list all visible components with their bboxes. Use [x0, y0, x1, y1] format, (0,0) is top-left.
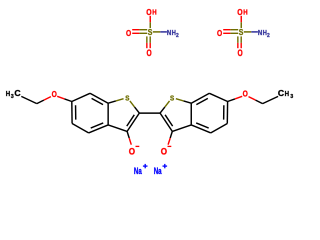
- bond C7a-S1: [108, 101, 116, 103]
- svg-text:C: C: [278, 89, 284, 98]
- bond C7a-C3a (ring fusion): [107, 103, 109, 125]
- svg-text:H: H: [243, 8, 247, 17]
- svg-text:H: H: [6, 89, 10, 98]
- bond CH2-CH3: [21, 96, 37, 103]
- bond C4-C5: [72, 124, 89, 133]
- svg-text:2: 2: [176, 33, 179, 39]
- plus charge on right Na: [163, 165, 168, 167]
- bond O6-CH2: [44, 97, 51, 101]
- svg-text:O: O: [161, 146, 167, 156]
- bond S-OH (mol 2): [240, 16, 242, 22]
- plus charge on left Na: [143, 165, 148, 167]
- svg-text:2: 2: [267, 33, 270, 39]
- central bond C2-C2': [139, 112, 160, 114]
- svg-text:H: H: [285, 89, 289, 98]
- svg-text:O: O: [146, 48, 151, 58]
- bond S-N (mol 1): [153, 31, 161, 33]
- minus charge on O3': [168, 145, 172, 147]
- svg-text:O: O: [237, 48, 242, 58]
- bond C6'-C7': [209, 93, 227, 101]
- svg-text:Na: Na: [154, 166, 163, 176]
- bond C7a'-C3a' (ring fusion): [190, 103, 192, 125]
- svg-text:N: N: [167, 28, 171, 37]
- svg-text:O: O: [126, 28, 131, 38]
- svg-text:N: N: [258, 28, 262, 37]
- bond S1-C2: [130, 101, 135, 107]
- svg-text:S: S: [239, 27, 244, 37]
- svg-text:3: 3: [11, 94, 14, 100]
- double bond S=O bottom (mol 2): [237, 36, 239, 43]
- minus charge on O3: [136, 145, 140, 147]
- double bond C5'=C6': [226, 102, 228, 124]
- bond C4'-C5': [211, 124, 228, 133]
- svg-text:S: S: [170, 93, 174, 102]
- svg-text:O: O: [243, 88, 249, 98]
- bond S-OH (mol 1): [149, 16, 151, 22]
- svg-text:O: O: [129, 146, 135, 156]
- svg-text:O: O: [237, 7, 243, 17]
- svg-text:C: C: [14, 89, 20, 98]
- bond C3-C3a: [108, 125, 127, 131]
- double bond C2=C3: [127, 113, 139, 131]
- svg-text:3: 3: [290, 94, 293, 100]
- bond C7a'-S1': [184, 101, 192, 103]
- bond O6-C6: [57, 96, 64, 99]
- svg-text:S: S: [125, 93, 129, 102]
- double bond O=S left (mol 2): [223, 29, 230, 31]
- double bond S=O bottom (mol 1): [146, 36, 148, 43]
- bond C3'-O3': [170, 131, 172, 138]
- double bond C3a'=C4': [191, 125, 211, 133]
- bond S1'-C2': [165, 101, 170, 107]
- bond C3-O3: [127, 131, 129, 138]
- bond O6'-C6': [235, 96, 242, 99]
- svg-text:S: S: [148, 27, 153, 37]
- bond C3'-C3a': [172, 125, 191, 131]
- svg-text:O: O: [217, 28, 222, 38]
- bond S-N (mol 2): [244, 31, 252, 33]
- svg-text:H: H: [152, 8, 156, 17]
- double bond C3a=C4: [89, 125, 109, 133]
- svg-text:O: O: [146, 7, 152, 17]
- double bond C7'=C7a': [191, 93, 209, 103]
- svg-text:Na: Na: [134, 166, 143, 176]
- bond C6-C7: [72, 93, 90, 101]
- svg-text:O: O: [52, 89, 58, 99]
- double bond C5=C6: [71, 102, 73, 124]
- bond CH2'-CH3': [263, 96, 279, 103]
- bond O6'-CH2': [249, 97, 256, 101]
- double bond C2'=C3': [160, 113, 172, 131]
- double bond O=S left (mol 1): [132, 29, 139, 31]
- double bond C7=C7a: [90, 93, 108, 103]
